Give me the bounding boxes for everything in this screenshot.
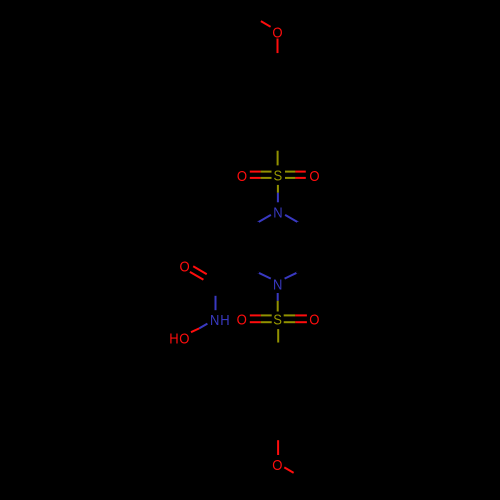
- wire ring2 C4 to O (bottom), oxygen half: [277, 440, 279, 455]
- wire piperazine left C-C: [246, 230, 248, 266]
- svg-text:N: N: [273, 206, 282, 222]
- svg-text:S: S: [273, 313, 282, 329]
- ring2 benzene (invisible carbon bonds): [248, 356, 308, 425]
- wire S1 to N1, nitrogen half: [277, 193, 279, 203]
- wire O to ring1 C1, oxygen half: [277, 39, 279, 54]
- double bond C=O carbonyl, carbon halves: [207, 274, 221, 282]
- double bond S2=O right, sulfur halves: [284, 314, 296, 316]
- svg-text:N: N: [210, 313, 219, 329]
- double bond S2=O left, sulfur halves: [261, 314, 272, 316]
- svg-text:O: O: [309, 313, 319, 329]
- wire carbonyl C to NH, nitrogen half: [215, 296, 217, 310]
- double bond S1=O left, oxygen halves: [250, 171, 261, 173]
- svg-text:H: H: [220, 313, 229, 329]
- wire O to ring1 C1, carbon half: [277, 53, 279, 68]
- double bond S1=O right, sulfur halves: [285, 171, 295, 173]
- wire N1 to piperazine C2 (right), carbon half: [297, 223, 309, 230]
- double bond S1=O right, oxygen halves: [295, 171, 305, 173]
- wire ring1 C4 to S1, carbon half: [277, 136, 279, 151]
- wire N2 to S2, nitrogen half: [277, 293, 279, 301]
- svg-text:H: H: [169, 331, 178, 347]
- ring1 benzene (invisible carbon bonds): [248, 68, 307, 136]
- wire N1 to piperazine C6 (left), carbon half: [247, 223, 260, 230]
- double bond C=O carbonyl, oxygen halves: [193, 266, 207, 274]
- double bond S1=O left, sulfur halves: [261, 171, 272, 173]
- wire NH to OH oxygen, nitrogen half: [199, 324, 207, 329]
- wire methyl C to O (top methoxy), oxygen half: [261, 21, 271, 27]
- wire O to methyl C (bottom methoxy), carbon half: [294, 473, 309, 482]
- wire piperazine C to carbonyl C (carbon bond, invisible): [217, 266, 247, 283]
- double bond S2=O right, oxygen halves: [295, 314, 307, 316]
- wire N1 to piperazine C6 (left), nitrogen half: [258, 215, 271, 223]
- double bond S2=O left, oxygen halves: [250, 314, 261, 316]
- svg-text:O: O: [237, 313, 247, 329]
- svg-text:O: O: [237, 169, 247, 185]
- wire N2 to piperazine C (left), carbon half: [247, 266, 259, 273]
- wire N2 to S2, sulfur half: [277, 301, 279, 312]
- wire ring2 C4 to O (bottom), carbon half: [277, 425, 279, 440]
- wire S1 to N1, sulfur half: [277, 185, 279, 193]
- svg-text:N: N: [273, 277, 282, 293]
- wire piperazine right C-C: [308, 230, 310, 266]
- wire N2 to piperazine C (right), nitrogen half: [285, 272, 298, 278]
- wire N2 to piperazine C (right), carbon half: [296, 266, 309, 273]
- wire carbonyl C to NH, carbon half: [215, 281, 217, 295]
- wire S2 to ring2 C1, carbon half: [277, 343, 279, 357]
- wire NH to OH oxygen, oxygen half: [191, 328, 199, 332]
- svg-text:O: O: [272, 458, 282, 474]
- wire O to methyl C (bottom methoxy), oxygen half: [284, 467, 293, 473]
- wire N2 to piperazine C (left), nitrogen half: [257, 272, 270, 278]
- svg-text:S: S: [273, 169, 282, 185]
- wire N1 to piperazine C2 (right), nitrogen half: [285, 215, 298, 223]
- wire S2 to ring2 C1, sulfur half: [277, 329, 279, 343]
- svg-text:O: O: [180, 260, 190, 276]
- wire ring1 C4 to S1, sulfur half: [277, 151, 279, 166]
- wire methyl C to O (top methoxy), carbon half: [246, 14, 261, 21]
- svg-text:O: O: [179, 331, 189, 347]
- svg-text:O: O: [309, 169, 319, 185]
